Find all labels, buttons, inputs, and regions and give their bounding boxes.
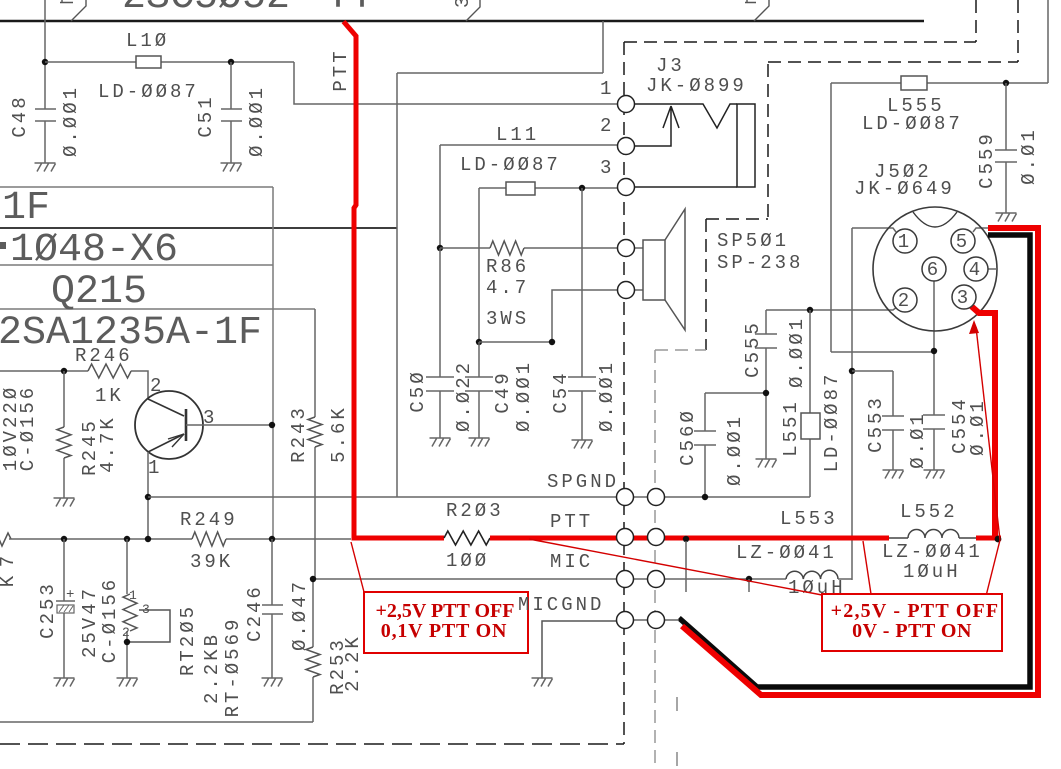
svg-text:C559: C559 <box>976 131 998 189</box>
svg-text:1ØØ: 1ØØ <box>446 550 489 572</box>
svg-text:6: 6 <box>927 259 941 281</box>
wire: L555 row <box>831 0 1048 83</box>
node junction RT205 wiper <box>124 639 130 645</box>
wire: L11 top row to J3 pin 2 <box>440 145 617 248</box>
thick red cable shield <box>682 228 1038 695</box>
ground under C50 <box>430 438 451 447</box>
svg-text:25V47: 25V47 <box>79 586 101 658</box>
wire: MICGND to ground <box>542 621 617 678</box>
wire: red J502 pin3 drop <box>970 305 995 538</box>
ground under C553 <box>883 470 904 479</box>
svg-text:39K: 39K <box>190 551 233 573</box>
J3 pin circle 2 <box>618 138 635 155</box>
svg-text:C553: C553 <box>865 395 887 453</box>
thick black cable MICGND <box>679 235 1030 687</box>
ground under C54 <box>572 440 593 449</box>
dashed fragments x677 <box>676 697 678 766</box>
node junction C253 <box>61 536 67 542</box>
svg-text:SPGND: SPGND <box>547 471 619 493</box>
svg-text:C246: C246 <box>244 584 266 642</box>
annotation box2 <box>822 594 1002 651</box>
svg-text:C555: C555 <box>742 320 764 378</box>
inductor L551 <box>809 310 811 497</box>
node junction RT205 <box>124 536 130 542</box>
trimmer RT205 <box>126 539 128 678</box>
red pointer line from L552 area to box2 <box>863 541 871 594</box>
svg-text:2: 2 <box>150 375 164 397</box>
ground MICGND <box>532 678 553 687</box>
wire: section border vertical x397 <box>396 73 398 497</box>
svg-text:K: K <box>0 573 19 587</box>
svg-text:+: + <box>66 587 74 603</box>
svg-text:5: 5 <box>956 231 970 253</box>
wire: red PTT horizontal left of R203 <box>352 536 445 541</box>
wire: MIC stub down <box>748 579 750 592</box>
ground under C253 <box>54 678 75 687</box>
jack J3 contact symbol <box>634 104 737 187</box>
capacitor C553 <box>852 371 904 470</box>
wire: R243 branch vertical <box>314 309 316 579</box>
node junction at C51 top <box>228 59 234 65</box>
wire: elbow to J3 pin 1 <box>294 62 617 104</box>
svg-text:LZ-ØØ41: LZ-ØØ41 <box>882 541 983 563</box>
svg-text:L551: L551 <box>780 399 802 457</box>
ground under C51 <box>221 163 242 172</box>
ground under R245 <box>54 498 75 507</box>
svg-text:JK-Ø899: JK-Ø899 <box>646 75 747 97</box>
dashed boundary x768 <box>706 64 768 350</box>
node junction L551 <box>807 307 813 313</box>
resistor R203 <box>444 531 490 545</box>
svg-text:0,1V PTT ON: 0,1V PTT ON <box>381 620 507 642</box>
svg-text:C253: C253 <box>37 581 59 639</box>
resistor R86 <box>440 247 617 249</box>
svg-text:LD-ØØ87: LD-ØØ87 <box>862 113 963 135</box>
svg-text:3: 3 <box>142 602 150 617</box>
wire: red PTT horizontal main <box>490 536 889 541</box>
capacitor C246 <box>262 539 283 678</box>
svg-text:LZ-ØØ41: LZ-ØØ41 <box>736 542 837 564</box>
off-page connector flag right <box>745 0 769 21</box>
capacitor C554 <box>923 415 945 470</box>
red arrow line junction to pin3 <box>976 327 1000 540</box>
node junction R246/R245 <box>61 368 67 374</box>
node junction red PTT/pin3 <box>995 536 1002 543</box>
dashed boundary rail y62 <box>768 0 1018 62</box>
svg-text:2.2KB: 2.2KB <box>201 632 223 704</box>
svg-text:C5Ø: C5Ø <box>407 369 429 412</box>
capacitor C560 <box>694 431 716 445</box>
J3 pin circle 5 <box>618 282 635 299</box>
svg-text:L11: L11 <box>496 124 539 146</box>
svg-text:1: 1 <box>898 231 912 253</box>
wire: L553 to J502 pin1 leg <box>838 578 852 580</box>
svg-text:1: 1 <box>148 457 162 479</box>
wire: red PTT right stub <box>976 536 1001 541</box>
wire: L11 left leg down <box>478 188 480 342</box>
svg-text:+2,5V - PTT OFF: +2,5V - PTT OFF <box>831 600 1000 622</box>
wire: J502 pin5 to cable <box>973 228 988 232</box>
svg-text:2: 2 <box>600 115 614 137</box>
ground under C559 <box>996 213 1017 222</box>
connector J502 keyway notch <box>913 212 957 227</box>
label 1048-X6 with leading fragment <box>0 242 6 249</box>
J3 pin circle MICGND b <box>648 612 665 629</box>
wire: top horizontal bus <box>0 20 924 22</box>
svg-text:R246: R246 <box>75 345 133 367</box>
capacitor C48 <box>35 109 56 163</box>
J502 pin circle 3 <box>952 285 976 309</box>
node junction C553 branch <box>849 368 855 374</box>
red pointer line to box1 from PTT corner <box>351 542 364 592</box>
resistor R245 <box>63 371 65 498</box>
svg-text:7: 7 <box>0 553 19 567</box>
ground under C246 <box>262 678 283 687</box>
svg-text:3: 3 <box>600 157 614 179</box>
svg-text:Ø.ØØ1: Ø.ØØ1 <box>513 360 535 432</box>
svg-text:Ø.Ø1: Ø.Ø1 <box>1018 127 1040 185</box>
J502 pin circle 6 <box>922 257 946 281</box>
wire: MIC line <box>313 578 786 580</box>
capacitor C51 <box>221 62 242 163</box>
ground under C49 <box>469 438 490 447</box>
svg-text:L553: L553 <box>780 508 838 530</box>
wire: PTT bus left <box>9 538 351 540</box>
ground under C554 <box>924 470 945 479</box>
ground under RT205 <box>117 678 138 687</box>
wire: red PTT vertical from top <box>344 22 357 537</box>
jack plug arrow <box>634 106 679 146</box>
svg-text:Ø.ØØ1: Ø.ØØ1 <box>724 414 746 486</box>
svg-text:Q215: Q215 <box>51 270 147 315</box>
svg-text:RT-Ø569: RT-Ø569 <box>222 617 244 718</box>
svg-text:2: 2 <box>898 290 912 312</box>
wire: black line y228 <box>0 227 397 229</box>
J3 pin circle MICGND a <box>617 612 634 629</box>
inductor L555 <box>901 76 927 90</box>
node junction C49 <box>476 339 482 345</box>
svg-text:TT: TT <box>326 0 374 20</box>
svg-text:C49: C49 <box>492 370 514 413</box>
wire: L10 row <box>45 61 294 63</box>
svg-text:Ø.Ø47: Ø.Ø47 <box>289 579 311 651</box>
node junction L11/pin3 <box>579 185 585 191</box>
callout box line y265 <box>0 264 273 266</box>
wire: MICGND stub to cable <box>664 619 679 621</box>
connector J502 shell <box>873 207 997 331</box>
svg-text:0V - PTT ON: 0V - PTT ON <box>852 620 972 642</box>
svg-text:1K: 1K <box>95 385 124 407</box>
J502 pin circle 1 <box>893 229 917 253</box>
svg-text:C-Ø156: C-Ø156 <box>17 385 39 471</box>
wire: base feed from left <box>0 370 88 372</box>
wire: MICGND between pins <box>633 619 648 621</box>
svg-text:C56Ø: C56Ø <box>677 408 699 466</box>
node junction collector/x273 <box>269 422 275 428</box>
J3 pin circle PTT b <box>648 529 665 546</box>
svg-text:JK-Ø649: JK-Ø649 <box>854 178 955 200</box>
resistor R253 <box>0 579 313 722</box>
dashed boundary top rail y42 <box>624 0 976 42</box>
node junction MIC stub <box>746 576 752 582</box>
svg-text:SP-238: SP-238 <box>717 252 803 274</box>
svg-text:1: 1 <box>600 78 614 100</box>
node junction C554 <box>931 348 937 354</box>
node junction emitter/SPGND wire <box>145 494 151 500</box>
node junction PTT mid <box>683 536 689 542</box>
wire: section border y73 <box>397 21 603 73</box>
inductor L10 <box>136 56 161 68</box>
svg-text:L552: L552 <box>900 501 958 523</box>
inductor L553 <box>786 570 838 579</box>
node junction R86/C50 <box>437 245 443 251</box>
red pointer line from PTT wire to box2 <box>529 539 822 595</box>
dashed boundary bottom y744 <box>0 743 624 745</box>
inductor L11 <box>479 187 617 189</box>
node junction at elbow <box>549 339 555 345</box>
svg-text:PTT: PTT <box>550 511 593 533</box>
svg-text:Ø.Ø22: Ø.Ø22 <box>453 360 475 432</box>
J502 pin circle 4 <box>964 257 988 281</box>
node junction C560/SPGND <box>702 494 708 500</box>
J3 pin circle PTT a <box>617 529 634 546</box>
wire: collector to node <box>186 424 272 426</box>
dashed boundary speaker box <box>655 350 706 769</box>
capacitor C49 <box>465 342 493 438</box>
svg-text:4.7: 4.7 <box>486 277 529 299</box>
resistor R243 <box>308 417 322 447</box>
node junction emitter bus <box>145 536 151 542</box>
svg-text:R243: R243 <box>288 405 310 463</box>
J3 pin circle MIC b <box>648 571 665 588</box>
capacitor C54 <box>568 188 596 440</box>
J3 pin circle 4 <box>618 240 635 257</box>
capacitor C559 <box>995 83 1017 213</box>
off-page connector flag left <box>60 0 86 21</box>
svg-text:Ø.ØØ1: Ø.ØØ1 <box>596 360 618 432</box>
svg-text:Ø.ØØ1: Ø.ØØ1 <box>786 316 808 388</box>
node junction R253/MIC <box>310 576 316 582</box>
svg-text:4: 4 <box>969 259 983 281</box>
svg-text:1Ø48-X6: 1Ø48-X6 <box>10 228 178 273</box>
svg-text:1F: 1F <box>2 186 50 231</box>
callout box line y187 <box>0 186 273 188</box>
svg-text:+2,5V PTT OFF: +2,5V PTT OFF <box>375 600 514 622</box>
J3 pin circle 3 <box>618 179 635 196</box>
ground under C48 <box>35 163 56 172</box>
dashed boundary J3 left edge <box>623 42 625 744</box>
svg-text:Ø.ØØ1: Ø.ØØ1 <box>60 85 82 157</box>
resistor fragment at left edge <box>0 532 11 546</box>
speaker SP501 <box>634 248 643 290</box>
svg-text:5.6K: 5.6K <box>328 405 350 463</box>
wire: J502 pin2 row y310 <box>766 307 897 310</box>
node junction C559 <box>1003 80 1009 86</box>
wire: C48 feed vertical <box>44 0 46 109</box>
ground under C555 <box>756 459 777 468</box>
svg-text:3: 3 <box>957 287 971 309</box>
svg-text:1: 1 <box>129 588 137 603</box>
svg-text:R249: R249 <box>180 509 238 531</box>
svg-text:RT2Ø5: RT2Ø5 <box>177 604 199 676</box>
red pointer line from box2 to junction <box>986 540 1000 596</box>
node junction C246 <box>269 536 275 542</box>
resistor R249 <box>192 532 226 546</box>
wire: C49 node to J3 pin 5 <box>479 290 617 342</box>
capacitor C253 electrolytic <box>56 539 75 678</box>
svg-text:2: 2 <box>122 625 130 640</box>
wire: emitter down <box>147 452 149 539</box>
capacitor C50 <box>426 248 454 438</box>
J3 pin circle 1 <box>618 96 635 113</box>
wire: C560 branch <box>705 393 766 497</box>
J3 pin circle SPGND a <box>617 489 634 506</box>
J3 pin circle MIC a <box>617 571 634 588</box>
svg-text:C51: C51 <box>195 94 217 137</box>
wire: L555 down leg x831 <box>831 83 934 352</box>
wire: PTT stub down <box>685 541 687 592</box>
svg-text:MIC: MIC <box>550 551 593 573</box>
svg-text:2SC5Ø52: 2SC5Ø52 <box>122 0 290 20</box>
wire: J502 pin1 row y228 <box>852 228 896 580</box>
svg-text:LD-ØØ87: LD-ØØ87 <box>98 81 199 103</box>
svg-text:2.2K: 2.2K <box>342 634 364 692</box>
svg-text:J3: J3 <box>656 55 685 77</box>
svg-text:C48: C48 <box>9 94 31 137</box>
svg-text:L1Ø: L1Ø <box>126 30 169 52</box>
svg-text:C-Ø156: C-Ø156 <box>99 577 121 663</box>
svg-text:1ØuH: 1ØuH <box>903 561 961 583</box>
wire: SPGND long wire <box>148 496 810 498</box>
svg-text:3WS: 3WS <box>486 308 529 330</box>
svg-text:Ø.ØØ1: Ø.ØØ1 <box>246 85 268 157</box>
svg-text:R86: R86 <box>486 256 529 278</box>
svg-text:R2Ø3: R2Ø3 <box>446 500 504 522</box>
callout box line y309 <box>0 308 315 310</box>
J502 pin circle 2 <box>893 288 917 312</box>
svg-text:LD-ØØ87: LD-ØØ87 <box>460 154 561 176</box>
red arrowhead at pin3 <box>969 320 979 334</box>
svg-text:MICGND: MICGND <box>518 594 604 616</box>
svg-text:SP5Ø1: SP5Ø1 <box>717 230 789 252</box>
callout box right edge x273 <box>272 187 274 539</box>
svg-text:PTT: PTT <box>330 48 352 91</box>
svg-text:LD-ØØ87: LD-ØØ87 <box>821 372 843 473</box>
svg-text:Ø.Ø1: Ø.Ø1 <box>907 411 929 469</box>
transistor Q215 <box>135 391 203 459</box>
off-page connector flag middle with rotated 3 <box>466 0 480 21</box>
annotation box1 <box>364 592 528 653</box>
wire: J502 pin6 leg <box>933 281 935 415</box>
svg-text:C54: C54 <box>550 370 572 413</box>
node junction at L10 left <box>42 59 48 65</box>
wire: R246 to base <box>131 371 148 398</box>
J502 pin circle 5 <box>951 229 975 253</box>
inductor L552 <box>889 537 977 539</box>
resistor R246 <box>88 364 131 378</box>
svg-text:3: 3 <box>452 0 474 8</box>
wire: pin4 stub to shell <box>988 268 997 270</box>
node junction C555/C560 <box>763 390 769 396</box>
J3 pin circle SPGND b <box>648 489 665 506</box>
svg-text:4.7K: 4.7K <box>97 415 119 473</box>
capacitor C555 <box>755 310 777 459</box>
